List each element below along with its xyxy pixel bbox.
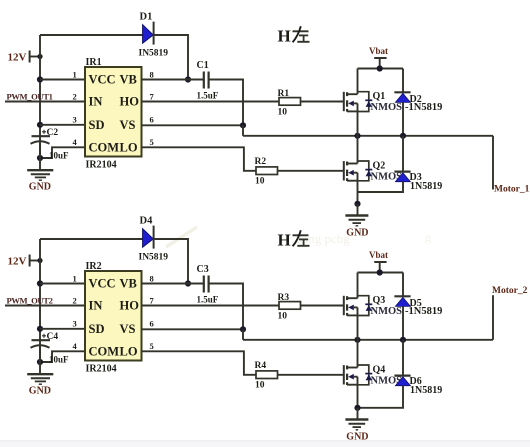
svg-text:IN: IN — [89, 95, 103, 109]
svg-text:Q4: Q4 — [373, 365, 386, 376]
wire low diode anode return — [358, 386, 404, 408]
junction rail pin3 — [37, 122, 43, 128]
wire pin2 IN from PWM_OUT2 — [5, 305, 85, 307]
svg-text:GND: GND — [346, 227, 368, 238]
svg-text:IN5819: IN5819 — [139, 253, 169, 263]
diode D2 1N5819 — [394, 69, 442, 136]
wire 12V vertical rail — [39, 239, 41, 362]
wire pin2 IN from PWM_OUT1 — [5, 101, 85, 103]
wire low diode anode return — [358, 182, 404, 192]
svg-text:g: g — [425, 230, 431, 244]
ground (bridge) — [345, 204, 368, 239]
junction rail bottom — [37, 359, 43, 365]
svg-text:12V: 12V — [8, 52, 27, 64]
svg-text:6: 6 — [150, 319, 154, 329]
junction rail pin3 — [37, 326, 43, 332]
junction VS node — [240, 122, 246, 128]
section title H-left — [278, 26, 310, 45]
wire pin7 HO — [142, 305, 280, 307]
wire gate high side — [301, 101, 344, 103]
section title H-left — [278, 230, 310, 249]
svg-text:1N5819: 1N5819 — [410, 181, 442, 192]
junction phase-diode — [400, 133, 406, 139]
junction phase-diode — [400, 337, 406, 343]
wire Vbat top rail — [358, 68, 404, 70]
svg-text:IR1: IR1 — [86, 57, 102, 68]
svg-text:1.5uF: 1.5uF — [197, 91, 219, 101]
wire diode cathode to VB node — [154, 239, 188, 284]
svg-text:12V: 12V — [8, 256, 27, 268]
svg-text:3: 3 — [73, 319, 77, 329]
transistor Q3 NMOS — [344, 295, 402, 317]
wire pin1 VCC — [40, 283, 85, 285]
svg-text:10: 10 — [278, 108, 288, 118]
svg-text:1: 1 — [73, 273, 77, 283]
svg-text:LO: LO — [120, 140, 138, 154]
svg-text:D4: D4 — [140, 216, 154, 227]
resistor R3 10 — [278, 293, 301, 322]
wire pin4 COM return — [40, 147, 85, 158]
svg-text:COM: COM — [89, 140, 120, 154]
wire phase to low drain — [357, 136, 359, 164]
diode D4 IN5819 — [139, 216, 169, 263]
wire high source to phase — [357, 111, 359, 135]
svg-text:VB: VB — [120, 277, 137, 291]
svg-text:R2: R2 — [255, 157, 267, 167]
svg-text:PWM_OUT2: PWM_OUT2 — [7, 296, 53, 306]
svg-text:H: H — [278, 27, 291, 46]
wire pin8 VB to bootstrap cap — [142, 283, 204, 285]
diode D1 IN5819 — [139, 12, 169, 59]
svg-text:6: 6 — [150, 115, 154, 125]
wire diode cathode to VB node — [154, 35, 188, 80]
svg-text:VS: VS — [120, 118, 136, 132]
svg-text:1: 1 — [73, 69, 77, 79]
svg-text:SD: SD — [89, 118, 105, 132]
power Vbat (section IR1) — [369, 46, 388, 69]
ground (bridge) — [345, 408, 368, 443]
resistor R1 10 — [278, 89, 301, 118]
junction phase-source — [354, 133, 360, 139]
resistor R2 10 — [255, 157, 278, 187]
svg-text:COM: COM — [89, 344, 120, 358]
wire pin7 HO — [142, 101, 280, 103]
svg-text:H: H — [278, 231, 291, 250]
svg-text:IN: IN — [89, 299, 103, 313]
capacitor C3 1.5uF — [197, 264, 219, 305]
capacitor C1 1.5uF — [197, 60, 219, 101]
wire pin3 SD — [40, 328, 85, 330]
capacitor C2 10uF — [31, 128, 70, 161]
svg-text:HO: HO — [120, 299, 140, 313]
diode D5 1N5819 — [394, 273, 442, 340]
svg-text:HO: HO — [120, 95, 140, 109]
svg-text:Vbat: Vbat — [369, 46, 388, 56]
svg-text:R4: R4 — [255, 361, 267, 371]
svg-text:5: 5 — [150, 137, 154, 147]
junction source-ground — [354, 201, 360, 207]
svg-text:10uF: 10uF — [49, 355, 69, 365]
svg-text:VCC: VCC — [89, 73, 116, 87]
svg-text:NMOS: NMOS — [371, 102, 403, 113]
diode D3 1N5819 — [394, 136, 442, 192]
transistor Q1 NMOS — [344, 91, 402, 113]
transistor Q2 NMOS — [344, 161, 402, 183]
wire pin4 COM return — [40, 351, 85, 362]
svg-text:C2: C2 — [47, 128, 59, 138]
wire pin6 VS — [142, 328, 244, 330]
svg-text:2: 2 — [73, 91, 77, 101]
wire gate high side — [301, 305, 344, 307]
svg-text:3: 3 — [73, 115, 77, 125]
wire 12V to rail — [30, 56, 40, 58]
wire high source to phase — [357, 315, 359, 339]
svg-text:C1: C1 — [197, 60, 209, 71]
net label 12V (section IR2) — [8, 255, 30, 268]
junction Vbat rail — [377, 269, 383, 275]
ground (12V bypass) — [27, 362, 53, 396]
wire 12V vertical rail — [39, 35, 41, 158]
wire pin5 LO — [142, 351, 257, 375]
wire Vbat top rail — [358, 272, 404, 274]
svg-text:-1N5819: -1N5819 — [405, 102, 442, 113]
net label 12V (section IR1) — [8, 51, 30, 64]
svg-text:Q1: Q1 — [373, 91, 386, 102]
svg-text:Vbat: Vbat — [369, 250, 388, 260]
transistor Q4 NMOS — [344, 365, 402, 387]
junction rail pin1 — [37, 280, 43, 286]
junction VS node — [240, 326, 246, 332]
resistor R4 10 — [255, 361, 278, 391]
wire pin6 VS — [142, 124, 244, 126]
svg-text:PWM_OUT1: PWM_OUT1 — [7, 92, 53, 102]
net label Motor_1 — [493, 136, 530, 195]
junction Vbat rail — [377, 65, 383, 71]
svg-text:SD: SD — [89, 322, 105, 336]
svg-text:10uF: 10uF — [49, 151, 69, 161]
svg-text:IN5819: IN5819 — [139, 49, 169, 59]
svg-text:GND: GND — [29, 385, 51, 396]
ground (12V bypass) — [27, 158, 53, 192]
junction rail pin1 — [37, 76, 43, 82]
wire gate low side — [278, 374, 344, 376]
svg-text:C4: C4 — [47, 332, 59, 342]
junction VB node — [185, 280, 191, 286]
svg-text:1.5uF: 1.5uF — [197, 295, 219, 305]
wire rail to diode anode — [40, 238, 143, 240]
svg-text:Motor_1: Motor_1 — [494, 184, 530, 194]
svg-text:Motor_2: Motor_2 — [492, 286, 528, 296]
diode D6 1N5819 — [394, 340, 442, 396]
svg-text:2: 2 — [73, 295, 77, 305]
svg-text:8: 8 — [150, 69, 154, 79]
wire phase to low drain — [357, 340, 359, 368]
wire top rail to high drain — [357, 273, 359, 299]
svg-text:Q3: Q3 — [373, 295, 386, 306]
junction phase-source — [354, 337, 360, 343]
wire low source to ground — [357, 181, 359, 204]
wire pin5 LO — [142, 147, 257, 171]
svg-text:10: 10 — [278, 312, 288, 322]
svg-text:5: 5 — [150, 341, 154, 351]
svg-text:VB: VB — [120, 73, 137, 87]
wire pin1 VCC — [40, 79, 85, 81]
svg-text:10: 10 — [255, 177, 265, 187]
svg-text:IR2: IR2 — [86, 261, 102, 272]
svg-text:NMOS: NMOS — [371, 306, 403, 317]
net label Motor_2 — [492, 286, 528, 340]
capacitor C4 10uF — [31, 332, 70, 365]
wire VS to phase rail — [242, 125, 244, 136]
svg-text:D1: D1 — [140, 12, 153, 23]
wire bootstrap cap to VS — [209, 284, 243, 330]
svg-text:GND: GND — [29, 181, 51, 192]
svg-text:-1N5819: -1N5819 — [405, 306, 442, 317]
svg-text:IR2104: IR2104 — [86, 160, 117, 171]
wire low source to ground — [357, 385, 359, 408]
svg-text:R1: R1 — [278, 89, 290, 99]
svg-text:VS: VS — [120, 322, 136, 336]
op-amp/driver IC IR2 IR2104 — [73, 261, 155, 375]
wire VS to phase rail — [242, 329, 244, 340]
wire pin8 VB to bootstrap cap — [142, 79, 204, 81]
svg-text:LO: LO — [120, 344, 138, 358]
wire rail to diode anode — [40, 34, 143, 36]
junction 12V rail — [37, 258, 42, 263]
wire phase rail — [243, 339, 493, 341]
svg-text:VCC: VCC — [89, 277, 116, 291]
junction source-ground — [354, 405, 360, 411]
svg-text:IR2104: IR2104 — [86, 364, 117, 375]
junction rail bottom — [37, 155, 43, 161]
wire phase rail — [243, 135, 493, 137]
power Vbat (section IR2) — [369, 250, 388, 273]
junction 12V rail — [37, 54, 42, 59]
wire top rail to high drain — [357, 69, 359, 95]
wire pin3 SD — [40, 124, 85, 126]
wire gate low side — [278, 170, 344, 172]
svg-text:Q2: Q2 — [373, 161, 386, 172]
junction VB node — [185, 76, 191, 82]
wire 12V to rail — [30, 260, 40, 262]
op-amp/driver IC IR1 IR2104 — [73, 57, 155, 171]
svg-text:R3: R3 — [278, 293, 290, 303]
svg-text:8: 8 — [150, 273, 154, 283]
svg-text:10: 10 — [255, 381, 265, 391]
wire bootstrap cap to VS — [209, 80, 243, 126]
svg-text:1N5819: 1N5819 — [410, 385, 442, 396]
svg-text:C3: C3 — [197, 264, 209, 275]
